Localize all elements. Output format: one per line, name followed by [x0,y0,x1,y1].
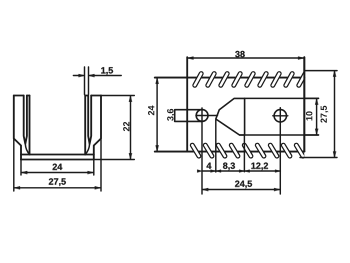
pentagon corner extension lines [216,120,245,172]
dimension 10 lines [305,98,319,135]
dimension 22 arrows [129,96,132,102]
bottom fin 1 [192,145,199,156]
body right edge redraw over clipped fins [303,57,305,151]
body left edge [186,57,188,151]
bottom fin 5 [244,145,251,156]
bottom fin 4 [231,145,238,156]
dimension 38 label [235,51,245,57]
bottom fin 6 [257,145,264,156]
dimension 12,2 label [251,163,268,171]
dimension 24 right view label [148,106,154,116]
bottom fin 7 [270,145,277,156]
dimension 8,3 label [223,163,235,171]
right wall outer face [94,96,101,160]
dimension 10 label [306,111,312,120]
bottom fin 9 [296,145,303,156]
base bottom [21,159,94,161]
right wall slot [88,96,91,144]
dimension 24,5 label [235,181,252,189]
right wall inner plate cap [85,95,88,97]
top fin 3 [221,74,227,86]
top fin 5 [247,74,253,86]
dimension 24 arrows [21,171,27,174]
pentagon mounting boss [216,98,245,135]
dimension 27,5 right view arrows [333,71,336,77]
top fin 8 [286,74,292,86]
left wall inner plate cap [27,95,30,97]
bottom fin 2 [205,145,212,156]
pentagon top line extended right [245,97,319,99]
dimension 38 line [188,57,304,59]
bottom fin 3 [218,145,225,156]
top fin 2 [208,74,214,86]
dimension 24 left view lines [21,160,94,175]
mounting tab with slot [175,110,208,122]
top fin 6 [260,74,266,86]
dimension 24 right view lines [155,78,187,152]
body bottom surface line [155,151,304,153]
base top (cavity floor) [21,154,94,156]
pentagon bottom line extended right [240,134,319,136]
dimension 22 label [123,122,129,131]
dimension 1,5 extension lines [73,67,121,95]
bottom dimension row arrows [197,170,202,173]
top fin 9 [299,74,305,86]
dimension 1,5 arrows [79,74,85,77]
left wall top cap [14,95,24,97]
body right edge [303,57,305,151]
top fin 1 [195,74,201,86]
dimension 24,5 arrows [202,188,208,191]
top fin 4 [234,74,240,86]
top fin 7 [273,74,279,86]
tab hole crosshair [196,108,218,194]
dimension 27,5 lines [14,140,101,192]
right wall top cap [91,95,101,97]
bottom dimension row line [202,170,280,172]
dimension 24,5 line [203,189,280,191]
dimension 3,6 label [167,109,175,121]
right hole [274,110,286,122]
right wall inner face [84,96,86,155]
dimension 1,5 label [101,67,113,75]
dimension 10 arrows [315,99,318,105]
dimension 38 arrows [187,57,193,60]
dimension 24 right view arrows [156,78,159,84]
bottom fin 8 [283,145,290,156]
tab hole circle [196,110,208,122]
dimension 27,5 right view label [321,106,329,123]
dimension 4 label [207,163,212,169]
left wall inner face [29,96,31,155]
body top surface line [155,77,304,79]
dimension 27,5 arrows [14,186,20,189]
right hole crosshair [273,108,288,194]
left wall outer face [14,96,21,160]
dimension 27,5 right view lines [300,71,337,158]
dimension 24 label [53,164,63,170]
dimension 22 lines [94,96,135,160]
left wall slot [24,96,27,144]
dimension 27,5 label [49,178,66,186]
